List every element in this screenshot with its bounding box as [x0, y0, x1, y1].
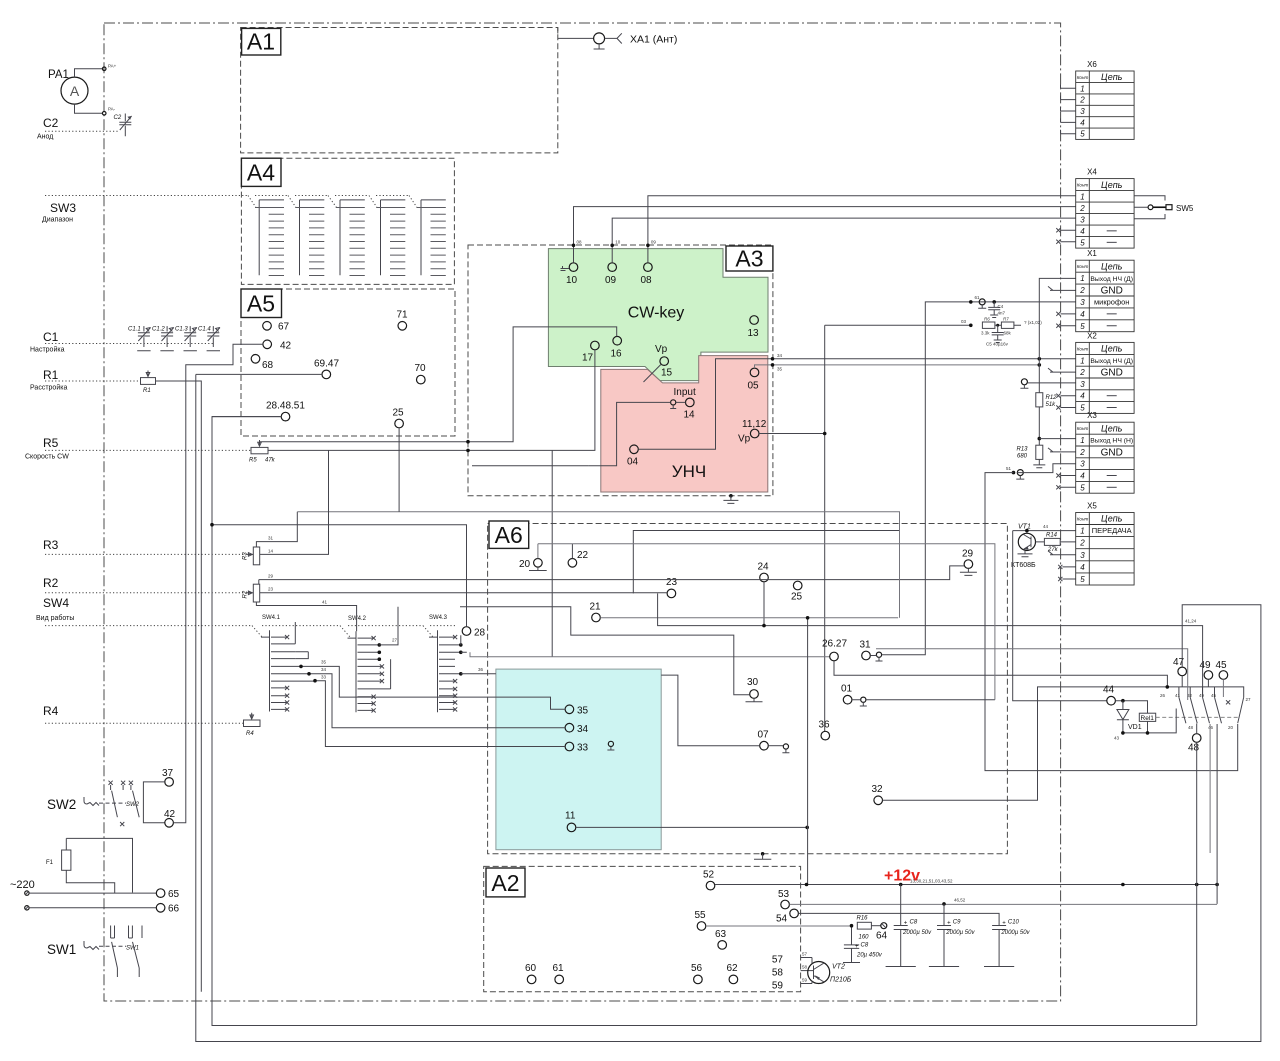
- svg-text:А3: А3: [735, 246, 763, 272]
- pin 16: [613, 336, 622, 345]
- control dotted line R5: [45, 449, 251, 451]
- wire net26.27 drop: [551, 450, 553, 656]
- terminal 61 with ground: [979, 299, 985, 305]
- potentiometer R2: [243, 584, 260, 602]
- X4 row1 hook right: [1134, 196, 1165, 201]
- wire node32: [883, 687, 1168, 800]
- svg-text:VT1: VT1: [1018, 524, 1031, 531]
- wire node37 to node42: [143, 782, 164, 823]
- svg-text:09: 09: [605, 275, 617, 286]
- svg-text:36: 36: [478, 667, 484, 672]
- svg-text:20µ 450v: 20µ 450v: [856, 953, 883, 959]
- diode VD1: [1117, 701, 1142, 733]
- svg-text:Цепь: Цепь: [1101, 180, 1123, 190]
- svg-text:4: 4: [1080, 392, 1085, 401]
- svg-text:Конт: Конт: [1077, 346, 1089, 351]
- node 26.27: [830, 652, 839, 661]
- svg-text:35: 35: [577, 706, 589, 717]
- svg-text:10: 10: [566, 275, 578, 286]
- svg-text:5: 5: [1080, 575, 1085, 584]
- svg-text:Цепь: Цепь: [1101, 72, 1123, 82]
- X4 row3 hook right: [1134, 214, 1165, 219]
- svg-text:15: 15: [661, 368, 673, 379]
- svg-text:09: 09: [651, 240, 657, 245]
- svg-text:3: 3: [1080, 107, 1085, 116]
- svg-text:42: 42: [280, 341, 292, 352]
- wire 220b to node 66: [29, 907, 156, 909]
- svg-text:PA1: PA1: [48, 69, 69, 81]
- svg-text:Конт: Конт: [1077, 517, 1089, 522]
- svg-text:Конт: Конт: [1077, 75, 1089, 80]
- svg-text:А4: А4: [247, 160, 275, 186]
- svg-text:5: 5: [1080, 238, 1085, 247]
- svg-text:Выход НЧ (Д): Выход НЧ (Д): [1090, 358, 1133, 365]
- svg-text:42: 42: [164, 809, 176, 820]
- node 71: [398, 322, 407, 331]
- svg-text:Х5: Х5: [1087, 502, 1097, 511]
- node 70: [417, 375, 426, 384]
- svg-text:57: 57: [772, 955, 784, 966]
- svg-text:4: 4: [1080, 563, 1085, 572]
- x-mark contact: [1226, 700, 1230, 704]
- wire L1 loop: [212, 417, 1196, 1026]
- capacitor C10 2000u: [984, 920, 1031, 967]
- svg-text:37: 37: [162, 768, 174, 779]
- svg-text:71: 71: [397, 310, 409, 321]
- svg-text:33: 33: [321, 675, 327, 680]
- svg-text:17: 17: [582, 353, 594, 364]
- svg-text:4n7: 4n7: [998, 310, 1006, 315]
- svg-text:SW1: SW1: [47, 942, 76, 957]
- svg-text:~220: ~220: [10, 879, 35, 891]
- wire PA1 top to terminal: [75, 69, 103, 77]
- wire net35: [301, 666, 565, 709]
- +12v rail: [715, 884, 1217, 886]
- gnd hook X1 GND: [1048, 286, 1076, 290]
- node 63: [718, 941, 727, 950]
- svg-text:R4: R4: [246, 731, 254, 737]
- wire 648 line: [876, 649, 1188, 700]
- svg-text:58: 58: [772, 968, 784, 979]
- node 34: [565, 723, 574, 732]
- svg-text:64: 64: [876, 931, 888, 942]
- svg-text:20: 20: [1228, 725, 1234, 730]
- svg-text:66: 66: [168, 904, 180, 915]
- svg-text:Х3: Х3: [1087, 411, 1097, 420]
- gnd hook X2 GND: [1048, 368, 1076, 372]
- svg-text:CW-key: CW-key: [628, 305, 685, 322]
- svg-text:2000µ 50v: 2000µ 50v: [902, 930, 932, 936]
- wire net28.48.51 horiz: [212, 416, 281, 418]
- node 29: [964, 560, 973, 569]
- capacitor C5: [986, 324, 1009, 347]
- svg-text:49: 49: [1200, 660, 1212, 671]
- node 54: [790, 909, 799, 918]
- ground node30: [746, 698, 763, 702]
- relay contact rail: [1167, 687, 1243, 697]
- svg-text:28: 28: [474, 628, 486, 639]
- x-mark X5 row4: [1058, 565, 1076, 569]
- wire node21 to bridge: [600, 617, 898, 619]
- svg-text:2: 2: [1079, 204, 1085, 213]
- A6 cyan module: [496, 669, 661, 850]
- svg-text:57: 57: [802, 952, 808, 957]
- svg-text:63: 63: [715, 929, 727, 940]
- svg-text:45: 45: [1216, 660, 1228, 671]
- ammeter PA1: [61, 77, 88, 104]
- tuned coil L5 (A4): [417, 200, 446, 276]
- svg-text:03: 03: [961, 319, 967, 324]
- node 28 (A6 edge): [462, 627, 471, 636]
- svg-text:GND: GND: [1101, 286, 1123, 297]
- svg-text:5: 5: [1080, 322, 1085, 331]
- wire R2 wiper net23: [260, 592, 667, 594]
- A6 label: [489, 521, 529, 548]
- svg-text:GND: GND: [1101, 368, 1123, 379]
- node 28.48.51: [281, 412, 290, 421]
- svg-text:13: 13: [748, 328, 760, 339]
- svg-text:47: 47: [1173, 657, 1185, 668]
- svg-text:Конт: Конт: [1077, 426, 1089, 431]
- terminal 220b: [25, 906, 29, 910]
- variable capacitor C1.3: [175, 326, 197, 351]
- transistor VT2 P210B: [808, 958, 852, 984]
- svg-text:C9: C9: [953, 920, 961, 926]
- svg-text:C1.2: C1.2: [152, 327, 165, 333]
- wire pin09 to X4 row3: [612, 218, 1075, 263]
- svg-text:16: 16: [611, 349, 623, 360]
- node 36: [821, 731, 830, 740]
- wire bridge 604: [196, 374, 1261, 1041]
- svg-text:60: 60: [525, 963, 537, 974]
- svg-text:+: +: [904, 921, 908, 927]
- node 25 (A6): [793, 581, 802, 590]
- svg-text:11: 11: [565, 811, 576, 822]
- svg-text:48: 48: [1188, 725, 1194, 730]
- X3 row3 terminal: [1017, 470, 1023, 476]
- svg-text:2000µ 50v: 2000µ 50v: [1000, 930, 1030, 936]
- svg-text:R7: R7: [1003, 316, 1009, 321]
- svg-text:П210Б: П210Б: [830, 977, 852, 984]
- svg-text:А5: А5: [247, 291, 275, 317]
- svg-text:C5 40µ16v: C5 40µ16v: [986, 342, 1009, 347]
- svg-text:46,52: 46,52: [954, 898, 966, 903]
- node 01: [843, 695, 852, 704]
- resistor R7: [1001, 322, 1014, 328]
- potentiometer R3: [243, 547, 260, 565]
- svg-text:08: 08: [641, 275, 653, 286]
- node 52: [706, 881, 715, 890]
- svg-text:26: 26: [1160, 693, 1166, 698]
- A2 dashed box: [484, 866, 801, 991]
- node 22: [568, 559, 577, 568]
- A1 dashed box: [241, 28, 558, 153]
- ground below R13: [1033, 459, 1045, 467]
- transistor VT1 KT608B: [1011, 524, 1036, 570]
- wire net54: [798, 913, 999, 925]
- wire R1 down: [156, 381, 202, 992]
- switch SW2: [47, 781, 140, 827]
- A4 label: [241, 158, 281, 186]
- node 48: [1192, 734, 1201, 743]
- svg-text:65: 65: [168, 889, 180, 900]
- wire net20 line B: [538, 544, 995, 700]
- node 24: [760, 573, 769, 582]
- wire node29 left: [259, 566, 964, 584]
- svg-text:35: 35: [321, 660, 327, 665]
- antenna connector XA1: [558, 28, 678, 50]
- svg-text:PA+: PA+: [108, 64, 117, 69]
- node 53: [781, 900, 790, 909]
- node 07: [760, 741, 769, 750]
- svg-text:62: 62: [727, 963, 739, 974]
- svg-text:1: 1: [1080, 527, 1084, 536]
- wire net34 pin04 to X2: [638, 359, 1075, 450]
- svg-text:51k: 51k: [1046, 402, 1057, 408]
- svg-text:34: 34: [577, 724, 589, 735]
- wire net42 A5 to SW2: [173, 344, 263, 823]
- svg-text:680: 680: [1017, 453, 1028, 459]
- control dotted line R2: [45, 592, 253, 594]
- wire net35 pin05: [755, 365, 1040, 368]
- wire node31 pair: [870, 655, 876, 657]
- wire pin10 to X4 row2: [574, 207, 1076, 263]
- node 62: [729, 975, 738, 984]
- svg-text:14: 14: [684, 410, 696, 421]
- wire R3 wiper net14: [260, 450, 329, 554]
- connector table Х1: [1076, 249, 1134, 332]
- node 11: [567, 823, 576, 832]
- svg-text:Х1: Х1: [1087, 249, 1097, 258]
- svg-text:05: 05: [748, 381, 760, 392]
- A3 label: [726, 246, 773, 271]
- svg-text:44: 44: [1103, 685, 1115, 696]
- ground at UNCH bottom: [729, 494, 733, 498]
- svg-text:SW2: SW2: [126, 802, 140, 808]
- svg-text:R2: R2: [243, 590, 249, 598]
- ground node29: [960, 568, 977, 575]
- wire 12v tail: [1216, 724, 1218, 904]
- svg-text:61: 61: [553, 963, 565, 974]
- svg-text:R3: R3: [43, 538, 59, 552]
- node 20: [534, 559, 543, 568]
- svg-text:67: 67: [278, 322, 290, 333]
- svg-text:SW4.1: SW4.1: [262, 615, 281, 621]
- node 42 (SW2): [165, 819, 174, 828]
- svg-text:Цепь: Цепь: [1101, 423, 1123, 433]
- svg-text:22: 22: [577, 550, 589, 561]
- capacitor C8 2000u: [886, 885, 933, 967]
- svg-text:Анод: Анод: [37, 134, 53, 141]
- wire node22 stub: [571, 544, 573, 559]
- svg-text:5: 5: [1080, 130, 1085, 139]
- svg-text:VD1: VD1: [1128, 724, 1142, 731]
- svg-text:R4: R4: [43, 704, 59, 718]
- node 68: [251, 355, 260, 364]
- svg-text:20: 20: [519, 559, 531, 570]
- svg-text:4: 4: [1080, 227, 1085, 236]
- svg-text:35: 35: [777, 367, 783, 372]
- svg-text:УНЧ: УНЧ: [672, 462, 706, 481]
- pin 10: [569, 263, 578, 272]
- potentiometer R4: [244, 713, 261, 737]
- svg-text:C2: C2: [43, 116, 59, 130]
- node 45: [1219, 671, 1228, 680]
- svg-text:2: 2: [1079, 368, 1085, 377]
- svg-text:04: 04: [627, 457, 639, 468]
- node 42 (A5): [263, 340, 272, 349]
- svg-text:01: 01: [841, 684, 853, 695]
- svg-text:26.27: 26.27: [822, 639, 847, 650]
- control dotted line R3: [45, 553, 253, 555]
- X6 connector stubs: [1061, 84, 1076, 133]
- svg-text:Цепь: Цепь: [1101, 514, 1123, 524]
- svg-text:микрофон: микрофон: [1094, 298, 1129, 307]
- svg-text:44: 44: [1043, 524, 1049, 529]
- control dotted line R1: [45, 380, 141, 382]
- resistor R12 51k: [1036, 393, 1043, 407]
- svg-text:C8: C8: [910, 920, 918, 926]
- node 61: [555, 975, 564, 984]
- node 30: [750, 690, 759, 699]
- svg-text:3: 3: [1080, 298, 1085, 307]
- svg-text:R2: R2: [43, 576, 59, 590]
- svg-text:Vp: Vp: [738, 434, 751, 445]
- capacitor C4: [988, 302, 1005, 318]
- svg-text:2: 2: [1079, 539, 1085, 548]
- rotary switch SW4.1: [261, 615, 315, 712]
- wire R16 right to node64: [871, 925, 880, 927]
- pin 13: [750, 316, 759, 325]
- wire node44 to rel: [1115, 701, 1147, 714]
- svg-text:5: 5: [1080, 404, 1085, 413]
- A5 dashed box: [241, 289, 455, 436]
- svg-text:68: 68: [262, 360, 274, 371]
- wire R12 to R13: [1038, 407, 1040, 445]
- wire R2 bottom net41: [256, 602, 356, 631]
- svg-text:Вид работы: Вид работы: [36, 614, 74, 622]
- variable capacitor C1.4: [198, 326, 220, 351]
- contact stubs: [1179, 687, 1215, 697]
- wire net44 vertical: [1013, 531, 1107, 701]
- capacitor C9 2000u: [929, 904, 976, 967]
- control dotted line R4: [45, 722, 244, 724]
- svg-text:5: 5: [1080, 483, 1085, 492]
- ground at A6 bottom: [761, 852, 765, 856]
- svg-text:А6: А6: [495, 522, 523, 548]
- wire pin08 to X4 row1: [648, 196, 1076, 263]
- svg-text:36: 36: [819, 720, 831, 731]
- terminal 31b with ground: [876, 652, 881, 657]
- resistor R14 27k: [1044, 538, 1060, 545]
- gnd hook X3 GND: [1048, 448, 1076, 452]
- svg-text:4: 4: [1080, 310, 1085, 319]
- connector table Х2: [1076, 331, 1134, 413]
- control dotted line C2: [45, 130, 118, 132]
- svg-text:R5: R5: [43, 436, 59, 450]
- x-mark X5 row5: [1058, 577, 1076, 581]
- svg-text:R1: R1: [43, 368, 59, 382]
- svg-text:C1.1: C1.1: [128, 327, 141, 333]
- chassis dash-dot frame: [104, 23, 1061, 1001]
- control dotted linkage SW4: [45, 625, 456, 627]
- node 33: [565, 742, 574, 751]
- svg-text:R13: R13: [1016, 446, 1028, 452]
- svg-text:А: А: [70, 83, 80, 99]
- wire input extension: [472, 465, 588, 467]
- A6 dashed box: [488, 524, 1008, 854]
- svg-text:Настройка: Настройка: [30, 346, 65, 354]
- svg-text:69.47: 69.47: [314, 359, 339, 370]
- control dotted line C1: [45, 343, 215, 345]
- svg-text:70: 70: [415, 363, 427, 374]
- node 21: [592, 613, 601, 622]
- control dotted linkage SW3: [45, 195, 409, 197]
- wire vertical x807: [807, 618, 809, 885]
- node 56: [694, 975, 703, 984]
- UNCH red module outline: [601, 356, 768, 492]
- wire net11,12 to R6 and node36: [759, 325, 971, 731]
- svg-text:68k: 68k: [1004, 331, 1012, 336]
- svg-text:2: 2: [1079, 286, 1085, 295]
- node 66: [156, 904, 165, 913]
- fuse F1: [46, 838, 133, 893]
- svg-text:Выход НЧ (Д): Выход НЧ (Д): [1090, 276, 1133, 283]
- svg-text:56: 56: [691, 963, 703, 974]
- terminal PA-: [102, 112, 106, 116]
- terminal 01b with ground: [861, 697, 866, 702]
- wire net27: [379, 607, 398, 645]
- svg-text:27: 27: [392, 638, 398, 643]
- svg-text:34: 34: [777, 353, 783, 358]
- svg-text:11,12: 11,12: [742, 419, 767, 430]
- svg-text:1: 1: [1080, 84, 1084, 93]
- node 47: [1178, 667, 1187, 676]
- svg-text:23: 23: [666, 577, 678, 588]
- svg-text:Скорость CW: Скорость CW: [25, 454, 69, 461]
- wire pin14 input: [588, 402, 685, 465]
- svg-text:3: 3: [1080, 551, 1085, 560]
- node 60: [527, 975, 536, 984]
- svg-text:30: 30: [747, 677, 759, 688]
- svg-text:Vp: Vp: [655, 344, 668, 355]
- svg-text:27: 27: [1246, 697, 1252, 702]
- wire net16 from R5: [260, 327, 617, 442]
- variable capacitor C1.1: [128, 326, 151, 351]
- resistor R16: [857, 922, 871, 929]
- pin 17: [591, 341, 600, 350]
- svg-text:F1: F1: [46, 860, 54, 866]
- variable capacitor C1.2: [152, 326, 174, 351]
- svg-text:Конт: Конт: [1077, 183, 1089, 188]
- svg-text:31: 31: [860, 640, 872, 651]
- wire net55: [706, 925, 852, 927]
- wire node25 A5 stem: [398, 428, 400, 512]
- svg-text:GND: GND: [1101, 448, 1123, 459]
- pin 08: [644, 263, 653, 272]
- svg-text:R3: R3: [243, 552, 249, 560]
- svg-text:25: 25: [393, 408, 405, 419]
- svg-text:51: 51: [1006, 466, 1012, 471]
- svg-text:SW4.3: SW4.3: [429, 615, 448, 621]
- pin 11,12 Vp: [750, 429, 759, 438]
- svg-text:R12: R12: [1046, 395, 1058, 401]
- svg-text:59: 59: [772, 981, 784, 992]
- svg-text:53: 53: [778, 889, 790, 900]
- svg-text:А2: А2: [491, 870, 519, 896]
- svg-text:4: 4: [1080, 472, 1085, 481]
- svg-text:21: 21: [590, 602, 602, 613]
